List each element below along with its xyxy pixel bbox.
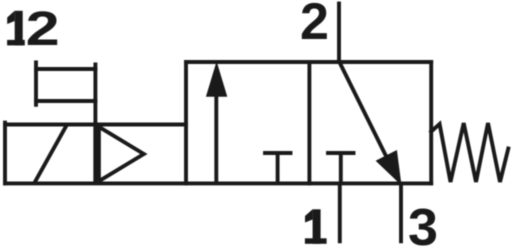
return spring — [431, 123, 508, 182]
blocked port T right stem — [339, 153, 343, 182]
pilot line 12 bottom wire — [36, 99, 95, 103]
blocked port T right crossbar — [328, 151, 354, 155]
port 1 wire — [338, 183, 342, 241]
pilot line 12 left tick — [34, 62, 38, 104]
solenoid box left edge — [3, 123, 7, 184]
port 2 wire — [337, 4, 341, 63]
valve body top edge — [186, 60, 431, 64]
blocked port T left crossbar — [265, 151, 291, 155]
svg-text:2: 2 — [300, 0, 329, 51]
pilot triangle — [99, 127, 144, 181]
flow arrow 1 to 2 head — [207, 64, 226, 96]
svg-text:3: 3 — [408, 199, 438, 247]
port label 1 — [305, 209, 327, 244]
svg-text:2: 2 — [26, 3, 60, 56]
solenoid box top edge — [5, 123, 186, 127]
flow path 2 to 3 arrowhead — [377, 151, 401, 183]
port 3 wire — [399, 183, 403, 241]
valve body divider — [307, 62, 311, 183]
solenoid divider — [93, 127, 97, 181]
pilot line 12 right vertical wire — [93, 65, 97, 125]
flow arrow 1 to 2 stem — [214, 92, 218, 181]
port label 12 — [7, 3, 60, 56]
pilot line 12 top wire — [36, 67, 95, 71]
valve body bottom edge — [5, 181, 431, 185]
valve body left edge — [184, 62, 188, 183]
blocked port T left stem — [276, 153, 280, 182]
valve body right edge — [429, 62, 433, 183]
solenoid coil slash — [36, 127, 66, 181]
flow path 2 to 3 diagonal wire — [341, 64, 389, 160]
